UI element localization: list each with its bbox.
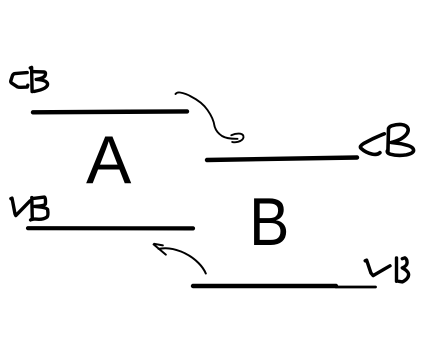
- wire: VB band level extension under VB label: [336, 286, 376, 289]
- arrow: electron transfer CB A to B: [176, 92, 244, 142]
- arrow: hole transfer VB B to A: [154, 244, 206, 274]
- label VB (region A): [11, 197, 48, 220]
- wire: VB band level, region A: [28, 226, 193, 230]
- svg-text:B: B: [249, 184, 289, 260]
- svg-text:A: A: [86, 122, 132, 198]
- label CB (region A): [11, 67, 48, 91]
- wire: CB band level, region B: [207, 158, 357, 161]
- wire: CB band level, region A: [33, 109, 187, 114]
- wire: VB band level, region B: [193, 284, 336, 288]
- label CB (region B): [360, 124, 413, 155]
- label VB (region B): [365, 258, 408, 282]
